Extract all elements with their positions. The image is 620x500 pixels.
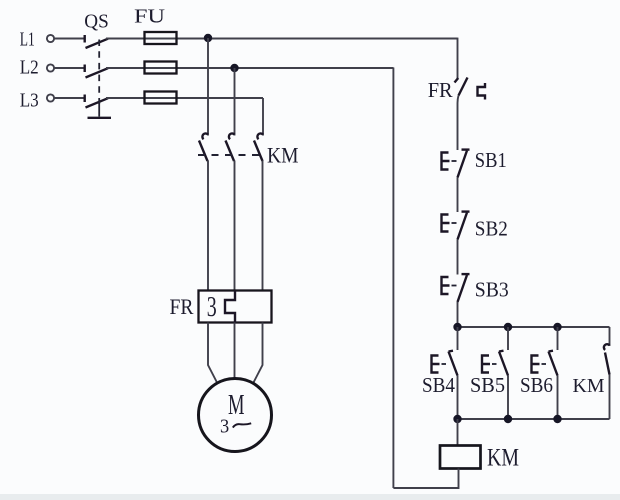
wire SB4 branch lower	[457, 376, 459, 420]
bottom gray strip	[0, 494, 620, 500]
svg-text:SB4: SB4	[422, 373, 455, 397]
wire L1 QS to fuse and through	[106, 38, 458, 40]
contactor KM main pole 3 hook	[257, 133, 263, 139]
thermal relay FR heater symbol	[225, 291, 235, 323]
wire SB6 branch lower	[557, 376, 559, 420]
wire SB3 to node row	[457, 302, 459, 327]
junction dot top rail B	[504, 323, 512, 331]
pushbutton SB3 link dash	[452, 285, 457, 287]
svg-text:SB6: SB6	[520, 373, 553, 397]
thermal contact FR blade	[459, 78, 468, 96]
wire phase A KM to FR box	[207, 161, 209, 291]
contactor KM main pole 1 hook	[202, 133, 208, 139]
wire FR contact to SB1	[458, 96, 459, 151]
terminal L2	[47, 64, 54, 71]
svg-text:L3: L3	[20, 90, 39, 112]
svg-text:SB5: SB5	[470, 373, 505, 397]
wire L3 terminal to QS	[55, 97, 85, 99]
wire SB5 branch lower	[507, 376, 509, 420]
motor tilde	[233, 423, 251, 427]
pushbutton SB5 link dash	[492, 363, 497, 365]
pushbutton SB3 blade	[458, 275, 468, 302]
svg-text:QS: QS	[84, 11, 109, 33]
svg-text:SB1: SB1	[475, 148, 507, 172]
coil KM	[440, 446, 481, 469]
wire L2 QS to fuse and through	[106, 67, 393, 69]
svg-text:FU: FU	[134, 6, 165, 28]
thermal contact FR top tick	[455, 78, 459, 83]
pushbutton SB2 link dash	[452, 222, 457, 224]
wire SB1 to SB2	[457, 178, 459, 213]
svg-text:KM: KM	[267, 143, 299, 168]
thermal relay FR heater box	[199, 291, 272, 323]
wire SB2 to SB3	[457, 240, 459, 275]
switch QS pole 3 blade	[86, 98, 109, 107]
pushbutton SB1 top tick	[462, 148, 470, 150]
pushbutton SB6 actuator E	[532, 356, 540, 373]
junction dot top rail C	[553, 323, 561, 331]
pushbutton SB4 actuator E	[432, 356, 440, 373]
wire SB6 branch upper	[557, 327, 559, 350]
junction dot L2	[230, 64, 238, 72]
junction dot bottom rail A	[453, 415, 461, 423]
svg-text:M: M	[228, 390, 245, 421]
svg-text:3: 3	[207, 292, 217, 323]
wire phase B drop to KM contact	[234, 68, 236, 136]
pushbutton SB2 top tick	[462, 210, 470, 212]
contactor KM main linkage dashed line	[198, 154, 262, 156]
pushbutton SB4 blade	[449, 351, 458, 376]
switch QS handle bar	[88, 117, 112, 119]
pushbutton SB3 top tick	[462, 273, 470, 275]
wire L1 terminal to QS	[55, 38, 85, 40]
wire phase A drop to KM contact	[207, 38, 209, 136]
thermal contact FR release symbol	[478, 83, 486, 100]
contactor KM main pole 3 blade	[254, 141, 263, 162]
svg-text:SB3: SB3	[475, 277, 509, 301]
pushbutton SB3 actuator E	[442, 277, 450, 294]
wire SB4 branch upper	[457, 327, 459, 350]
contactor KM main pole 1 blade	[199, 141, 208, 162]
fuse FU pole 3	[145, 92, 177, 104]
wire return left riser to L2	[392, 68, 394, 489]
pushbutton SB5 blade	[499, 351, 508, 376]
svg-text:KM: KM	[573, 375, 605, 397]
wire L3 QS to fuse and to corner	[106, 97, 263, 99]
wire parallel top rail	[458, 326, 610, 328]
svg-text:SB2: SB2	[475, 216, 508, 240]
wire phase B KM to FR box	[234, 161, 236, 291]
wire phase C FR box to motor	[254, 323, 263, 383]
pushbutton SB4 link dash	[442, 363, 447, 365]
pushbutton SB5 actuator E	[482, 356, 490, 373]
wire KM aux branch lower	[609, 375, 611, 420]
wire phase B FR box to motor	[234, 323, 236, 379]
wire phase A FR box to motor	[208, 323, 217, 383]
pushbutton SB2 actuator E	[442, 215, 450, 232]
junction dot L1	[204, 34, 212, 42]
svg-text:3: 3	[220, 415, 229, 437]
svg-text:L1: L1	[20, 28, 35, 50]
contactor KM aux hook	[604, 344, 610, 350]
switch QS pole 1 blade	[86, 39, 109, 48]
fuse FU pole 2	[145, 62, 177, 74]
wire L2 terminal to QS	[55, 67, 85, 69]
terminal L1	[47, 35, 54, 42]
pushbutton SB6 link dash	[542, 363, 547, 365]
switch QS pole 3 fixed contact	[83, 95, 85, 103]
pushbutton SB1 link dash	[452, 160, 457, 162]
contactor KM main pole 2 blade	[226, 141, 235, 162]
wire parallel bottom rail	[458, 418, 610, 420]
wire L1 corner down to FR contact	[457, 38, 459, 79]
wire KM aux branch upper	[609, 327, 611, 346]
svg-text:FR: FR	[170, 294, 194, 319]
pushbutton SB2 blade	[458, 213, 468, 240]
switch QS pole 2 fixed contact	[83, 65, 85, 73]
pushbutton SB1 actuator E	[442, 153, 450, 170]
svg-text:L2: L2	[20, 56, 39, 78]
switch QS linkage dashed line	[98, 40, 100, 105]
svg-text:FR: FR	[428, 78, 454, 102]
fuse FU pole 1	[145, 32, 177, 44]
wire phase C drop to KM contact	[262, 98, 264, 136]
switch QS pole 1 fixed contact	[83, 35, 85, 43]
switch QS pole 2 blade	[86, 68, 109, 77]
junction dot top rail A	[453, 323, 461, 331]
pushbutton SB6 blade	[549, 351, 558, 376]
contactor KM main pole 2 hook	[229, 133, 235, 139]
svg-text:KM: KM	[487, 445, 519, 472]
wire phase C KM to FR box	[262, 161, 264, 291]
wire SB5 branch upper	[507, 327, 509, 350]
wire coil bottom to return	[393, 469, 458, 489]
junction dot bottom rail C	[553, 415, 561, 423]
contactor KM aux blade	[605, 353, 610, 375]
junction dot bottom rail B	[504, 415, 512, 423]
terminal L3	[47, 94, 54, 101]
pushbutton SB1 blade	[458, 151, 468, 178]
wire node to coil	[457, 419, 459, 446]
motor M circle	[199, 379, 272, 452]
